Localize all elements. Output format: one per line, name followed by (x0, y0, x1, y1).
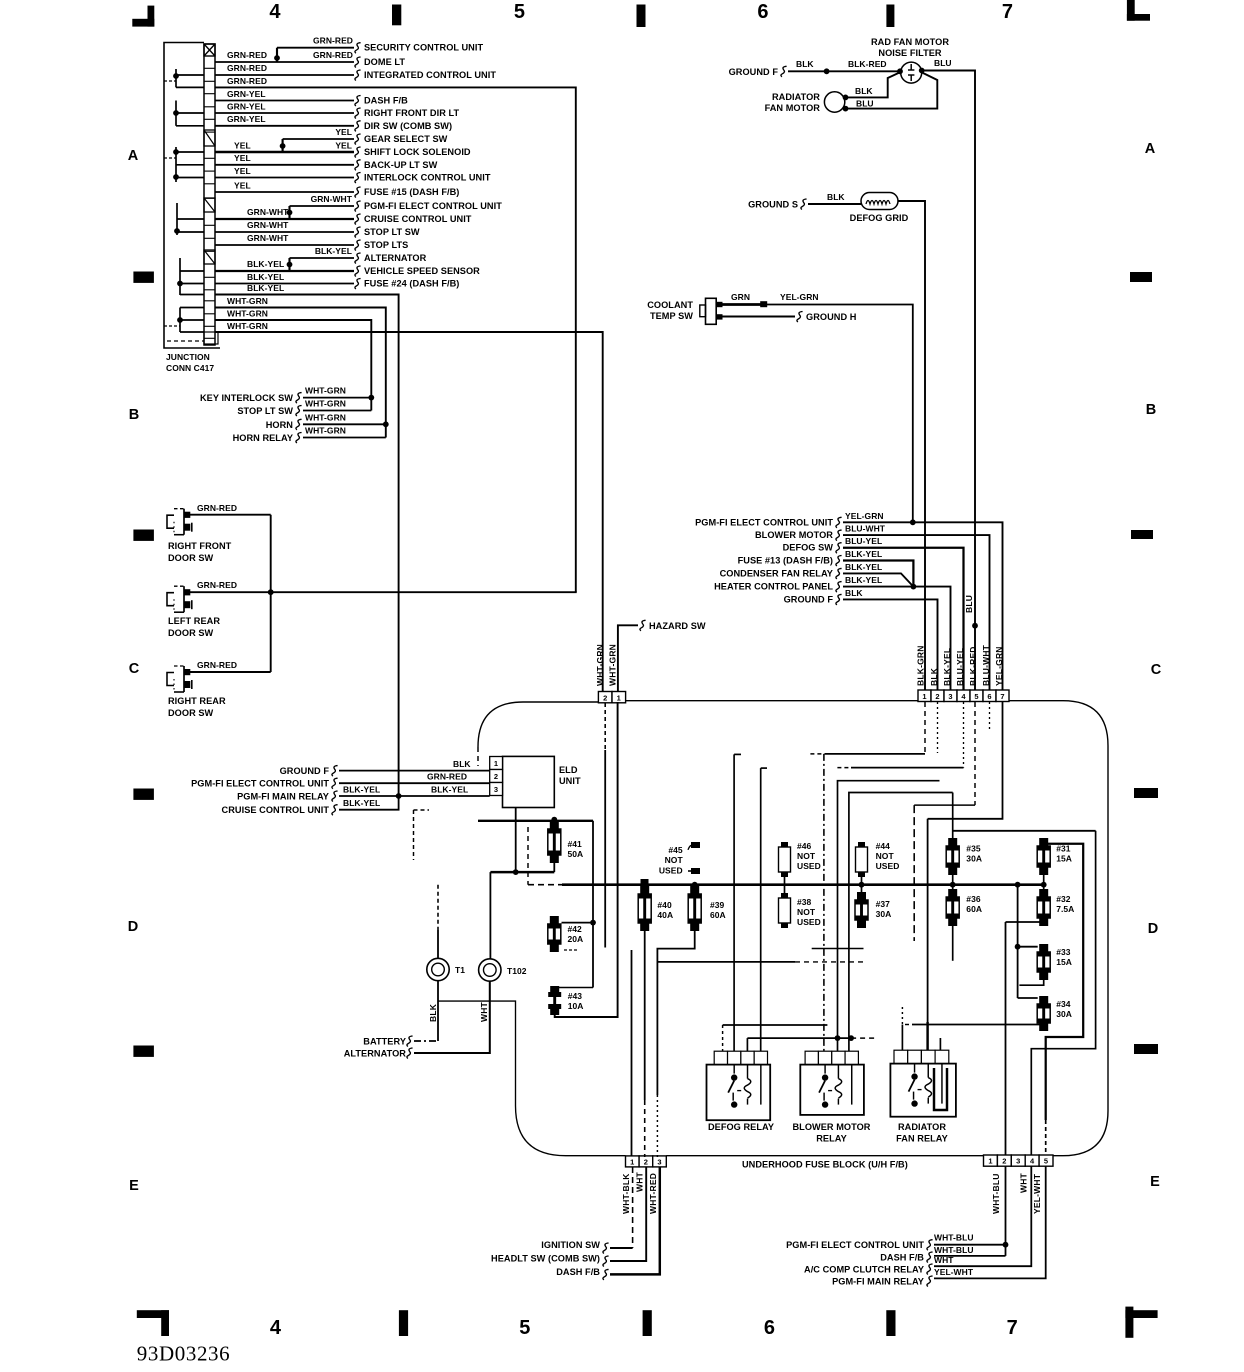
wire defog grid to fuse block pin1 (898, 201, 925, 690)
svg-text:BLK-GRN: BLK-GRN (916, 645, 926, 686)
svg-text:GRN-WHT: GRN-WHT (247, 233, 289, 243)
svg-text:GROUND H: GROUND H (806, 312, 857, 322)
wire YEL row10 to FUSE #15 (215, 191, 354, 193)
ELD unit box (503, 756, 555, 807)
svg-text:BLK: BLK (453, 759, 471, 769)
svg-text:BLU-YEL: BLU-YEL (845, 536, 882, 546)
ELD pin boxes (490, 757, 503, 770)
svg-text:3: 3 (1016, 1157, 1020, 1166)
svg-text:CRUISE CONTROL UNIT: CRUISE CONTROL UNIT (222, 805, 330, 815)
svg-text:BLOWER MOTOR: BLOWER MOTOR (755, 530, 833, 540)
svg-text:BLK: BLK (845, 588, 863, 598)
svg-text:STOP LTS: STOP LTS (364, 240, 408, 250)
underhood fuse block outline (478, 701, 1108, 1156)
svg-text:GRN-RED: GRN-RED (313, 36, 353, 46)
svg-text:#46: #46 (797, 841, 812, 851)
svg-text:BLK-YEL: BLK-YEL (845, 562, 882, 572)
left bracket WHT-GRN (179, 308, 181, 333)
svg-text:YEL: YEL (335, 140, 352, 150)
wire BLU-WHT row to pin6 (843, 535, 990, 690)
svg-text:BLK-YEL: BLK-YEL (845, 549, 882, 559)
wire YEL-WHT pgm-fi main relay (934, 1166, 1046, 1278)
wire fuse #33 bottom (1019, 980, 1043, 985)
fuse #46 NOT USED (784, 842, 786, 877)
svg-text:NOT: NOT (797, 851, 816, 861)
defog grid symbol (861, 193, 898, 210)
svg-text:WHT-BLU: WHT-BLU (934, 1233, 974, 1243)
svg-text:DASH F/B: DASH F/B (880, 1253, 924, 1263)
svg-text:DOOR SW: DOOR SW (168, 708, 214, 718)
left rear door switch (167, 593, 174, 606)
svg-text:UNDERHOOD FUSE BLOCK (U/H F/B): UNDERHOOD FUSE BLOCK (U/H F/B) (742, 1160, 908, 1170)
terminal T1 (427, 958, 449, 980)
svg-text:D: D (1148, 921, 1159, 937)
svg-text:WHT-GRN: WHT-GRN (305, 399, 346, 409)
svg-text:GRN-WHT: GRN-WHT (311, 194, 353, 204)
border bottom-left corner mark (137, 1310, 169, 1318)
svg-text:GRN-RED: GRN-RED (197, 660, 237, 670)
wire KEY INTERLOCK SW (303, 397, 371, 399)
svg-text:93D03236: 93D03236 (137, 1342, 230, 1366)
svg-text:RIGHT FRONT DIR LT: RIGHT FRONT DIR LT (364, 108, 459, 118)
border bottom tick 3 (886, 1310, 895, 1336)
label FUSE #24 (DASH F/B) (355, 279, 361, 290)
svg-text:50A: 50A (568, 849, 584, 859)
svg-text:#39: #39 (710, 900, 725, 910)
junction connector bottom small box (204, 332, 218, 344)
left bracket BLK-YEL (179, 258, 181, 295)
svg-text:60A: 60A (966, 904, 982, 914)
left bracket GRN-YEL (175, 101, 177, 126)
wire fuse #32 to bottom connector pin2 (1006, 922, 1044, 926)
border left tick A-B (133, 272, 154, 283)
svg-text:YEL: YEL (234, 180, 251, 190)
svg-text:GRN-YEL: GRN-YEL (227, 101, 266, 111)
wire row y767 (837, 767, 851, 769)
svg-text:WHT: WHT (1019, 1172, 1029, 1193)
svg-text:GRN-YEL: GRN-YEL (227, 89, 266, 99)
wire radiator relay feed pin7 route (928, 702, 1003, 819)
svg-text:BLU: BLU (964, 595, 974, 613)
svg-text:UNIT: UNIT (559, 776, 581, 786)
svg-text:DASH F/B: DASH F/B (556, 1267, 600, 1277)
svg-text:GROUND F: GROUND F (280, 766, 330, 776)
wire fuse #43 to connector pin1 vertical (555, 702, 618, 1017)
svg-text:#37: #37 (876, 899, 891, 909)
wire fuse #40 down to bottom connector pin2 (644, 931, 646, 1100)
wire to dash f/b bottom (610, 1167, 660, 1274)
svg-text:BLK-RED: BLK-RED (968, 646, 978, 686)
svg-text:3: 3 (494, 785, 498, 794)
terminal T102 (479, 959, 501, 981)
wire BLK to ground H (720, 316, 795, 318)
svg-text:ALTERNATOR: ALTERNATOR (344, 1049, 407, 1059)
wire blower relay feed 1 (823, 754, 825, 1051)
svg-text:5: 5 (1044, 1157, 1048, 1166)
wire GRN-WHT row13 to STOP LTS (215, 244, 354, 246)
defog relay (714, 1051, 727, 1064)
label PGM-FI ELECT CONTROL UNIT top (355, 201, 361, 212)
svg-text:WHT-RED: WHT-RED (648, 1173, 658, 1214)
wire y961 branch (657, 961, 795, 963)
svg-text:E: E (129, 1178, 139, 1194)
svg-text:SECURITY CONTROL UNIT: SECURITY CONTROL UNIT (364, 43, 483, 53)
svg-text:TEMP SW: TEMP SW (650, 311, 693, 321)
wire to ignition sw (610, 1247, 633, 1249)
svg-text:A/C COMP CLUTCH RELAY: A/C COMP CLUTCH RELAY (804, 1265, 924, 1275)
svg-text:1: 1 (617, 693, 621, 702)
svg-text:5: 5 (519, 1317, 530, 1339)
wire defog relay feed 2 (733, 754, 735, 1051)
svg-text:IGNITION SW: IGNITION SW (541, 1240, 600, 1250)
svg-text:BATTERY: BATTERY (363, 1037, 406, 1047)
svg-text:#33: #33 (1056, 947, 1071, 957)
svg-text:GRN-RED: GRN-RED (197, 503, 237, 513)
svg-text:YEL-GRN: YEL-GRN (845, 511, 884, 521)
svg-text:LEFT REAR: LEFT REAR (168, 616, 220, 626)
junction connector C417 outer box (164, 43, 220, 349)
border top tick 3 (886, 5, 894, 28)
label INTERLOCK CONTROL UNIT (355, 173, 361, 184)
junction connector hatched divider boxes (204, 130, 215, 146)
svg-text:15A: 15A (1056, 957, 1072, 967)
svg-text:FUSE #24 (DASH F/B): FUSE #24 (DASH F/B) (364, 279, 459, 289)
wire WHT-BLU pgm-fi bottom (934, 1244, 1006, 1246)
fuse #37 30A (861, 885, 863, 892)
border bottom-right corner mark (1125, 1310, 1157, 1318)
svg-text:KEY INTERLOCK SW: KEY INTERLOCK SW (200, 393, 293, 403)
svg-text:D: D (128, 919, 139, 935)
svg-text:BLU-WHT: BLU-WHT (981, 644, 991, 686)
svg-text:NOISE FILTER: NOISE FILTER (878, 48, 942, 58)
svg-text:2: 2 (935, 692, 939, 701)
svg-text:3: 3 (948, 692, 952, 701)
svg-text:WHT-GRN: WHT-GRN (227, 296, 268, 306)
wire YEL-GRN row to pin7 (843, 522, 1003, 690)
svg-text:1: 1 (494, 759, 498, 768)
wire YEL to GEAR SELECT SW (283, 138, 354, 140)
svg-text:1: 1 (922, 692, 926, 701)
svg-text:WHT-GRN: WHT-GRN (227, 321, 268, 331)
svg-text:HAZARD SW: HAZARD SW (649, 621, 706, 631)
label VEHICLE SPEED SENSOR (355, 266, 361, 277)
svg-text:7: 7 (1002, 1, 1013, 23)
junction connector top box with X (204, 44, 215, 56)
svg-text:YEL-GRN: YEL-GRN (780, 292, 819, 302)
svg-text:DEFOG RELAY: DEFOG RELAY (708, 1122, 774, 1132)
svg-text:VEHICLE SPEED SENSOR: VEHICLE SPEED SENSOR (364, 266, 480, 276)
svg-text:A: A (128, 148, 139, 164)
wire GRN-RED right front door (190, 514, 271, 516)
wire HORN RELAY (303, 437, 386, 439)
border left tick D-E (133, 1046, 154, 1057)
wire left connector pin2 vertical (604, 703, 606, 750)
wire BLK radiator fan motor (845, 73, 900, 98)
fuse #34 30A (1018, 997, 1038, 999)
svg-text:GROUND F: GROUND F (729, 67, 779, 77)
svg-text:NOT: NOT (876, 851, 895, 861)
svg-text:USED: USED (797, 861, 821, 871)
svg-text:GRN-WHT: GRN-WHT (247, 220, 289, 230)
wire defog relay feed 4 (760, 768, 762, 1051)
fuse #38 NOT USED (784, 885, 786, 893)
label SHIFT LOCK SOLENOID (355, 147, 361, 158)
svg-text:BLK-YEL: BLK-YEL (315, 246, 352, 256)
wire to hazard switch (618, 625, 638, 692)
rad fan motor noise filter symbol (901, 62, 922, 83)
svg-text:#41: #41 (568, 839, 583, 849)
svg-text:2: 2 (494, 772, 498, 781)
fuse #45 NOT USED broken (688, 845, 695, 850)
svg-text:7.5A: 7.5A (1056, 904, 1074, 914)
svg-text:A: A (1145, 141, 1156, 157)
border right tick C-D (1134, 788, 1158, 798)
svg-text:2: 2 (644, 1157, 648, 1166)
svg-text:DEFOG SW: DEFOG SW (783, 543, 834, 553)
svg-text:DOOR SW: DOOR SW (168, 628, 214, 638)
radiator fan relay inner bracket (934, 1068, 947, 1110)
svg-text:BLK-YEL: BLK-YEL (247, 272, 284, 282)
svg-text:GRN-YEL: GRN-YEL (227, 114, 266, 124)
wire YEL row9 to INTERLOCK CONTROL UNIT (215, 177, 354, 179)
svg-text:BLU: BLU (934, 58, 952, 68)
wire BLK-YEL row15 to FUSE #24 (215, 283, 354, 285)
wire y1038 branch (747, 1037, 851, 1039)
svg-text:BLK-YEL: BLK-YEL (845, 575, 882, 585)
blower motor relay (805, 1051, 818, 1064)
svg-text:GRN-RED: GRN-RED (227, 63, 267, 73)
svg-text:HEADLT SW (COMB SW): HEADLT SW (COMB SW) (491, 1254, 600, 1264)
svg-text:CRUISE CONTROL UNIT: CRUISE CONTROL UNIT (364, 214, 472, 224)
svg-text:BLK: BLK (796, 59, 814, 69)
junction connector C417 strip (204, 44, 215, 345)
svg-text:#31: #31 (1056, 844, 1071, 854)
svg-text:HORN: HORN (266, 420, 294, 430)
fuse #33 15A (1018, 946, 1038, 948)
svg-text:3: 3 (657, 1157, 661, 1166)
wire right route to bottom connector pin4 (1031, 831, 1095, 1155)
wire BLK-YEL to ELD pin3 (339, 795, 490, 797)
right front door switch (167, 515, 174, 528)
right rear door switch (167, 673, 174, 686)
svg-text:RELAY: RELAY (816, 1134, 847, 1144)
wire blower relay feed 3 row y792 (849, 793, 953, 1052)
svg-text:DOOR SW: DOOR SW (168, 553, 214, 563)
wire fuse block vertical x593 (592, 821, 594, 988)
svg-text:DEFOG GRID: DEFOG GRID (850, 213, 909, 223)
svg-text:40A: 40A (657, 910, 673, 920)
underhood fuse block bottom-left boundary via T1 wire (438, 1001, 626, 1156)
svg-text:INTEGRATED CONTROL UNIT: INTEGRATED CONTROL UNIT (364, 70, 496, 80)
svg-text:YEL-WHT: YEL-WHT (934, 1267, 974, 1277)
svg-text:2: 2 (603, 693, 607, 702)
svg-text:GRN-RED: GRN-RED (313, 50, 353, 60)
wire GRN/YEL-GRN coolant temp sw (722, 303, 766, 306)
svg-text:T102: T102 (507, 966, 527, 976)
svg-text:1: 1 (988, 1157, 992, 1166)
label BACK-UP LT SW (355, 160, 361, 171)
border left tick B-C (133, 530, 154, 541)
svg-text:BLK-YEL: BLK-YEL (942, 648, 952, 686)
svg-text:GRN-RED: GRN-RED (197, 580, 237, 590)
wire BLK-YEL row16 long to PGM-FI MAIN RELAY node (215, 295, 399, 797)
svg-text:NOT: NOT (665, 855, 684, 865)
label RIGHT FRONT DIR LT (355, 108, 361, 119)
wire T1 upper (437, 885, 439, 930)
fuse #40 40A (641, 879, 649, 886)
svg-text:STOP LT SW: STOP LT SW (364, 227, 420, 237)
svg-text:ELD: ELD (559, 765, 578, 775)
svg-text:RADIATOR: RADIATOR (772, 92, 820, 102)
svg-text:WHT-GRN: WHT-GRN (227, 309, 268, 319)
svg-text:BLU-WHT: BLU-WHT (845, 524, 886, 534)
left bracket YEL (175, 147, 177, 182)
wire GRN-WHT to PGM-FI ELECT CONTROL UNIT (290, 205, 355, 207)
wire bottom connector pin1 feed (631, 950, 633, 1156)
svg-text:BLK-YEL: BLK-YEL (247, 259, 284, 269)
svg-text:5: 5 (974, 692, 978, 701)
svg-text:GRN-RED: GRN-RED (227, 76, 267, 86)
wire WHT-BLU dash fb (934, 1255, 1006, 1257)
svg-text:NOT: NOT (797, 907, 816, 917)
svg-text:CONN C417: CONN C417 (166, 363, 214, 373)
svg-text:4: 4 (270, 1317, 282, 1339)
svg-text:PGM-FI MAIN RELAY: PGM-FI MAIN RELAY (237, 792, 329, 802)
svg-text:BLK-YEL: BLK-YEL (343, 798, 380, 808)
svg-text:WHT-GRN: WHT-GRN (305, 412, 346, 422)
svg-text:RADIATOR: RADIATOR (898, 1122, 946, 1132)
svg-text:WHT-GRN: WHT-GRN (595, 644, 605, 686)
svg-text:RIGHT FRONT: RIGHT FRONT (168, 541, 232, 551)
wire BLK-YEL row14 to VEHICLE SPEED SENSOR (215, 270, 354, 272)
svg-text:BLK: BLK (929, 667, 939, 686)
svg-text:#44: #44 (876, 841, 891, 851)
border top-right corner mark (1127, 14, 1150, 21)
wire WHT-GRN row19 long to fuse block connector (215, 332, 603, 692)
svg-text:GROUND S: GROUND S (748, 200, 798, 210)
svg-text:USED: USED (797, 917, 821, 927)
svg-text:E: E (1150, 1174, 1160, 1190)
wire defog relay feed 3 (746, 1038, 748, 1051)
svg-text:30A: 30A (966, 854, 982, 864)
svg-text:5: 5 (514, 1, 525, 23)
fuse #44 NOT USED (861, 842, 863, 877)
svg-text:6: 6 (764, 1317, 775, 1339)
svg-text:WHT: WHT (479, 1001, 489, 1022)
svg-text:#43: #43 (568, 991, 583, 1001)
svg-text:7: 7 (1007, 1317, 1018, 1339)
border right tick A-B (1130, 272, 1152, 282)
svg-text:JUNCTION: JUNCTION (166, 352, 210, 362)
border top tick 1 (392, 5, 401, 26)
wire T102 to alternator (414, 981, 490, 1053)
wire T1 to battery (437, 981, 439, 1041)
svg-text:YEL-GRN: YEL-GRN (994, 646, 1004, 686)
svg-text:YEL-WHT: YEL-WHT (1032, 1173, 1042, 1214)
svg-text:BACK-UP LT SW: BACK-UP LT SW (364, 160, 438, 170)
svg-text:WHT-BLU: WHT-BLU (991, 1173, 1001, 1214)
svg-text:BLU: BLU (856, 99, 874, 109)
connector 1-7 top right (918, 690, 931, 702)
wire y830 right (953, 830, 1096, 832)
fuse #35 30A (952, 838, 954, 875)
wire to headlt sw (610, 1167, 646, 1261)
wire fuse #31 top loop to bottom connector pin5 (1043, 838, 1045, 841)
wire GRN-RED row3 long to door switches (215, 87, 576, 592)
wire BLU from noise filter to fuse block pin5 (922, 71, 975, 691)
svg-text:#32: #32 (1056, 894, 1071, 904)
label STOP LTS (355, 240, 361, 251)
label GEAR SELECT SW (355, 134, 361, 145)
radiator fan motor symbol (824, 92, 844, 112)
svg-text:GRN-WHT: GRN-WHT (247, 207, 289, 217)
label CRUISE CONTROL UNIT (355, 214, 361, 225)
wire GRN-RED row2 to INTEGRATED CONTROL UNIT (215, 74, 354, 76)
wire y1025 branch defog (723, 1024, 828, 1026)
svg-text:GRN-RED: GRN-RED (227, 50, 267, 60)
svg-text:RIGHT REAR: RIGHT REAR (168, 696, 226, 706)
wire y948 branch blower (812, 948, 864, 950)
svg-text:CONDENSER FAN RELAY: CONDENSER FAN RELAY (720, 568, 833, 578)
wire ELD to T102 bus (515, 808, 517, 873)
label FUSE #15 (DASH F/B) (355, 187, 361, 198)
svg-text:WHT-GRN: WHT-GRN (305, 426, 346, 436)
svg-text:20A: 20A (568, 934, 584, 944)
svg-text:FAN RELAY: FAN RELAY (896, 1134, 948, 1144)
wire YEL row8 to BACK-UP LT SW (215, 164, 354, 166)
svg-text:WHT-BLU: WHT-BLU (934, 1245, 974, 1255)
svg-text:#45: #45 (668, 845, 683, 855)
wire HORN (303, 423, 386, 425)
label DOME LT (355, 57, 361, 68)
svg-text:BLU-YEL: BLU-YEL (955, 648, 965, 686)
wire BLU-YEL row to pin4 (843, 548, 964, 690)
wire blower relay feed 2 row y780 (838, 781, 940, 1051)
svg-text:BLK-YEL: BLK-YEL (247, 283, 284, 293)
wire fuse #34 bottom to radiator relay (905, 1024, 912, 1026)
wire GRN-YEL row6 to DIR SW (215, 125, 354, 127)
fuse #42 20A (562, 922, 594, 924)
coolant temp switch symbol (706, 298, 717, 324)
svg-text:#42: #42 (568, 924, 583, 934)
svg-text:#38: #38 (797, 897, 812, 907)
wire WHT ac comp clutch (934, 1166, 1031, 1266)
svg-text:RAD FAN MOTOR: RAD FAN MOTOR (871, 37, 949, 47)
svg-text:YEL: YEL (234, 166, 251, 176)
wire BLK ground row to pin2 (843, 599, 938, 690)
border top-left corner mark (132, 19, 154, 27)
svg-text:USED: USED (876, 861, 900, 871)
svg-text:HORN RELAY: HORN RELAY (233, 433, 293, 443)
svg-text:SHIFT LOCK SOLENOID: SHIFT LOCK SOLENOID (364, 147, 471, 157)
wire fuse #39 to x657 vertical (657, 931, 694, 1095)
svg-text:FAN MOTOR: FAN MOTOR (765, 103, 821, 113)
wire y805 segment (914, 804, 975, 806)
label STOP LT SW (355, 227, 361, 238)
svg-text:GROUND F: GROUND F (784, 594, 834, 604)
svg-text:GEAR SELECT SW: GEAR SELECT SW (364, 134, 448, 144)
border right tick B-C (1131, 530, 1153, 539)
svg-text:PGM-FI ELECT CONTROL UNIT: PGM-FI ELECT CONTROL UNIT (786, 1240, 924, 1250)
wire WHT-GRN row17 to horn bus (215, 308, 386, 425)
wire GRN-YEL row4 to DASH F/B (215, 100, 354, 102)
svg-text:#40: #40 (657, 900, 672, 910)
wire BLK-YEL fuse13 row (843, 561, 913, 587)
wire row y753 to pin1 (810, 753, 825, 755)
label SECURITY CONTROL UNIT (355, 43, 361, 54)
wire radiator relay feed 4 (939, 1038, 941, 1051)
svg-text:WHT-GRN: WHT-GRN (305, 386, 346, 396)
